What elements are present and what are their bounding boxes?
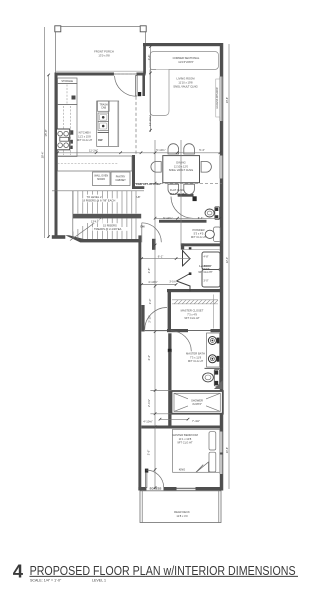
wall: strip left exterior [138,235,141,490]
dimension line: central interior vertical [154,140,156,488]
svg-text:9FT CLG HT: 9FT CLG HT [198,271,213,274]
refrigerator [58,84,78,105]
powder sink [205,230,214,238]
svg-text:2'-6": 2'-6" [147,55,151,61]
svg-text:DN: DN [141,225,145,229]
wall: left exterior [55,73,58,239]
bath sink 1 [208,337,216,345]
svg-text:6'-1": 6'-1" [158,255,164,259]
svg-text:11'8 x 4'0: 11'8 x 4'0 [176,514,188,518]
bath toilet [203,370,220,387]
svg-text:9FT CLG HT: 9FT CLG HT [184,316,200,320]
dining table [163,156,200,183]
svg-text:28'-4": 28'-4" [40,152,44,159]
svg-text:FLAT CLNG: FLAT CLNG [170,188,184,192]
front door dashed header [114,73,138,75]
wall: stairs top [132,186,144,189]
hall door at stair base [142,223,162,243]
wall: closet bottom [167,329,223,332]
svg-text:LEVEL 1: LEVEL 1 [92,578,106,582]
kitchen island [97,101,119,146]
svg-text:STORAGE: STORAGE [61,80,73,83]
svg-text:5'-10¾": 5'-10¾" [163,216,172,220]
vaulted ceiling dashed line vertical [135,97,137,157]
svg-text:CABINET: CABINET [115,179,126,182]
wall: stairs bottom right segment [80,239,139,242]
stairs outline top edge [52,190,144,192]
svg-text:LINE OF LOFT ABV: LINE OF LOFT ABV [136,182,161,186]
front door leaf [136,76,138,97]
dims: hall at laundry [142,258,192,260]
svg-text:SNGL VAULT CLNG: SNGL VAULT CLNG [173,84,197,88]
svg-text:13'-10¾": 13'-10¾" [148,115,152,126]
bath vanity [207,333,220,367]
window: living room east [219,77,223,122]
svg-text:CAB: CAB [101,107,106,110]
dimension line: living room vertical [150,47,152,133]
dining chair left [151,162,161,173]
svg-text:SCALE: 1/4" = 1'-0": SCALE: 1/4" = 1'-0" [30,578,62,582]
wall: laundry bottom / closet top [167,289,223,292]
kitchen counter left run [58,105,78,157]
wall: front stub right of door [137,73,146,76]
porch floor edge line [56,70,147,72]
svg-text:MASTER BEDROOM: MASTER BEDROOM [172,433,199,437]
wall: powder top [159,220,207,223]
svg-text:3'-0⅞": 3'-0⅞" [169,281,176,284]
closet hatch shelving [172,295,218,329]
svg-text:13'4.5": 13'4.5" [91,220,99,224]
bedroom door leaf [145,469,148,473]
porch post right [140,26,146,32]
svg-text:KITCHEN: KITCHEN [79,131,91,135]
dimension line: dining/powder secondary vertical [180,140,182,245]
wall: stairs bottom diagonal jog [65,235,84,242]
line of loft above (dashed) [135,182,222,184]
svg-text:2'-0⅞": 2'-0⅞" [147,399,151,407]
stair break diagonal [70,218,102,241]
svg-text:4'x3'8.5": 4'x3'8.5" [192,402,202,406]
bath sink 2 [208,355,216,363]
bath door swing [171,331,192,352]
wall: right exterior [220,43,223,491]
svg-text:SHOWER: SHOWER [191,399,203,403]
bed fold corner [196,462,209,472]
dimension line: left exterior outer [44,27,46,238]
wall: closet left [168,290,171,332]
shower [172,391,223,414]
wall: bath west [168,333,171,349]
stairs labels [85,195,102,199]
dimension line: right exterior [228,44,230,489]
svg-text:7'3 x 4'9: 7'3 x 4'9 [187,312,197,316]
svg-text:TREADS @ 2-1/16"EA.: TREADS @ 2-1/16"EA. [94,227,122,231]
jamb: wc door [193,196,197,201]
pillows [209,432,216,450]
wall: powder bottom corner return [181,243,184,249]
svg-text:11'1 x 10'8: 11'1 x 10'8 [179,437,192,441]
dining chair right [201,162,211,173]
wc door swing [171,197,193,219]
wall: stub below stairs [152,239,156,250]
dining chairs bottom [168,184,179,194]
dims: wc vestibule [155,217,220,219]
island double sink [98,113,108,122]
trash cab box [98,101,110,111]
wall: bath west lower [168,352,171,426]
window: bedroom east 1 [219,432,223,453]
svg-text:9FT CLG HT: 9FT CLG HT [188,359,204,363]
jamb: front door [138,92,141,96]
svg-text:10'-8": 10'-8" [226,447,229,453]
svg-text:PROPOSED FLOOR PLAN w/INTERIOR: PROPOSED FLOOR PLAN w/INTERIOR DIMENSION… [30,564,296,578]
svg-text:9FT CLG HT: 9FT CLG HT [191,235,207,239]
closet door swing [145,308,167,330]
kitchen storage box [58,78,78,84]
wall: bedroom bottom left of door [138,487,146,490]
dimension line: left exterior [48,75,50,238]
svg-text:2'-8": 2'-8" [147,268,151,274]
dimension line: kitchen/dining horizontal [58,152,220,154]
svg-text:MASTER CLOSET: MASTER CLOSET [181,309,204,313]
jamb: bath door lower [168,349,172,352]
stairs left edge line [72,191,74,239]
svg-text:4'-10⅝": 4'-10⅝" [143,419,152,423]
wall: living room top [143,43,223,46]
stair treads lower flight [73,219,136,240]
svg-text:5'3 x 4'5: 5'3 x 4'5 [194,231,204,235]
stair treads upper flight [73,191,136,214]
bedroom door swing [146,470,164,488]
svg-text:5'-4": 5'-4" [198,216,204,220]
svg-text:LIVING ROOM: LIVING ROOM [177,77,196,81]
svg-text:18 RISERS @ 6-7/8" EACH: 18 RISERS @ 6-7/8" EACH [82,199,115,203]
svg-text:FRONT PORCH: FRONT PORCH [94,50,114,54]
wall: wc vestibule top segment [178,194,194,197]
powder vanity [214,227,221,242]
exterior face line right wall [222,43,224,491]
svg-text:KING: KING [179,468,186,472]
wall: stairs bottom left segment [52,235,66,239]
wall: entry return [142,76,145,97]
svg-text:5'-4": 5'-4" [199,148,205,152]
pantry cabinet [111,172,130,186]
svg-text:REAR DECK: REAR DECK [174,510,190,514]
dims: hall at shower [150,390,171,392]
svg-text:7'3 x 11'8: 7'3 x 11'8 [190,355,202,359]
corner triangle by toilet [214,380,223,389]
svg-text:DW: DW [98,138,103,142]
front porch outline [56,27,146,75]
svg-text:12'-0": 12'-0" [226,257,229,263]
washer dryer stack [202,252,220,270]
svg-text:15 RISERS: 15 RISERS [103,223,117,227]
svg-text:4: 4 [13,560,24,581]
svg-text:EGRESS WINDOW: EGRESS WINDOW [216,87,219,109]
svg-text:19'-8": 19'-8" [226,97,229,103]
svg-text:4'-4": 4'-4" [147,355,151,361]
laundry bifold doors [177,250,191,292]
window: dining east [219,156,223,179]
stair mid rail [73,214,141,219]
title underline [30,575,299,577]
svg-text:UP: UP [137,195,141,199]
king bed [173,429,220,472]
svg-text:13'0 x 9'8: 13'0 x 9'8 [98,53,110,57]
wall: kitchen cabinet return [132,155,135,189]
window: bedroom east 2 [219,455,223,475]
bedroom window in bottom wall [177,487,196,490]
svg-text:POWDER: POWDER [192,228,204,232]
svg-text:MASTER BATH: MASTER BATH [186,352,205,356]
svg-text:15'-8": 15'-8" [44,129,48,136]
svg-text:3'-0": 3'-0" [204,280,209,283]
svg-text:11'10 x 19'8: 11'10 x 19'8 [178,80,193,84]
range/stove [57,129,70,150]
svg-text:MICRO: MICRO [97,178,105,181]
svg-text:9FT CLG HT: 9FT CLG HT [170,192,185,196]
wall: closet door stub on left wall [141,305,144,332]
wall: vanity/toilet divider [205,367,224,369]
svg-text:TO LEVEL 2: TO LEVEL 2 [87,195,102,199]
svg-text:9FT CLG HT: 9FT CLG HT [177,441,193,445]
svg-text:11'4.5"x9'8.5": 11'4.5"x9'8.5" [178,60,194,64]
wall: living room west (porch side) [143,46,146,73]
svg-text:5'-10¾": 5'-10¾" [156,148,165,152]
corner sectional sofa [150,52,219,116]
front door swing arc [115,76,137,96]
svg-text:CORNER SECTIONAL: CORNER SECTIONAL [173,56,200,60]
svg-text:4'-8": 4'-8" [204,256,209,259]
svg-text:4'-10⅝": 4'-10⅝" [148,280,157,284]
svg-text:2'-10": 2'-10" [147,315,151,322]
wall: powder bottom [181,243,223,246]
dim ticks on kitchen line [56,151,221,154]
svg-text:3'-0": 3'-0" [148,299,152,305]
dims: powder top ticks [47,45,221,489]
svg-text:7'-4⅛": 7'-4⅛" [192,419,200,423]
dining chairs top [168,144,179,154]
kitchen lower counter [58,156,133,171]
svg-text:11'2 x 15'8: 11'2 x 15'8 [78,134,91,138]
wall: front (left of door) [55,73,115,76]
wall oven cabinet [93,172,111,186]
wall: bedroom bottom [164,487,224,490]
svg-text:9FT CLG HT: 9FT CLG HT [77,138,93,142]
svg-text:3'-6": 3'-6" [147,450,151,456]
rear deck [140,491,221,523]
wc toilet [205,207,220,220]
wall: bedroom top [141,426,223,429]
porch post left [55,26,61,32]
pocket door gap [188,329,211,333]
